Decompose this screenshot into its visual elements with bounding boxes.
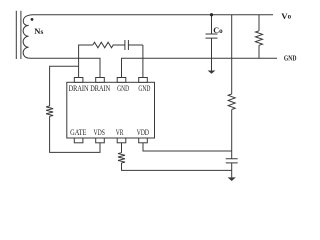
svg-text:VDS: VDS xyxy=(94,128,105,137)
svg-text:Co: Co xyxy=(213,26,223,35)
svg-text:VDD: VDD xyxy=(137,128,149,137)
svg-text:GND: GND xyxy=(117,84,129,93)
svg-text:Vo: Vo xyxy=(281,11,291,21)
svg-text:DRAIN: DRAIN xyxy=(69,84,89,93)
svg-text:Ns: Ns xyxy=(34,26,43,36)
svg-text:GND: GND xyxy=(284,53,297,62)
svg-text:GATE: GATE xyxy=(70,128,86,137)
svg-text:VR: VR xyxy=(116,128,124,137)
svg-text:DRAIN: DRAIN xyxy=(90,84,110,93)
svg-text:GND: GND xyxy=(138,84,150,93)
